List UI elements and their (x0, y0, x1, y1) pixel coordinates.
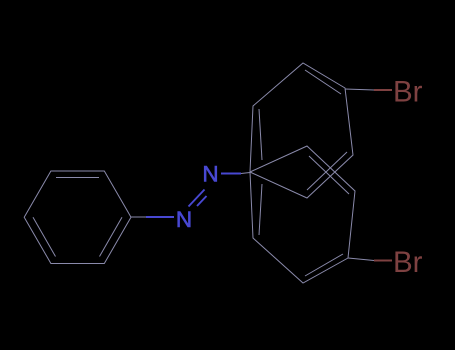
benzene ring lower right (250, 146, 355, 283)
wire N=N double bond (189, 190, 207, 207)
benzene ring upper right (250, 63, 353, 198)
wire C1-N bond (131, 216, 146, 218)
svg-text:Br: Br (393, 76, 423, 109)
svg-text:N: N (176, 207, 192, 232)
wire N-C bond (221, 173, 241, 175)
svg-text:Br: Br (393, 246, 423, 279)
wire bond to Br upper (345, 89, 374, 90)
wire bond to Br lower (348, 258, 374, 261)
benzene ring left (phenyl) (24, 171, 131, 264)
svg-text:N: N (202, 162, 218, 187)
